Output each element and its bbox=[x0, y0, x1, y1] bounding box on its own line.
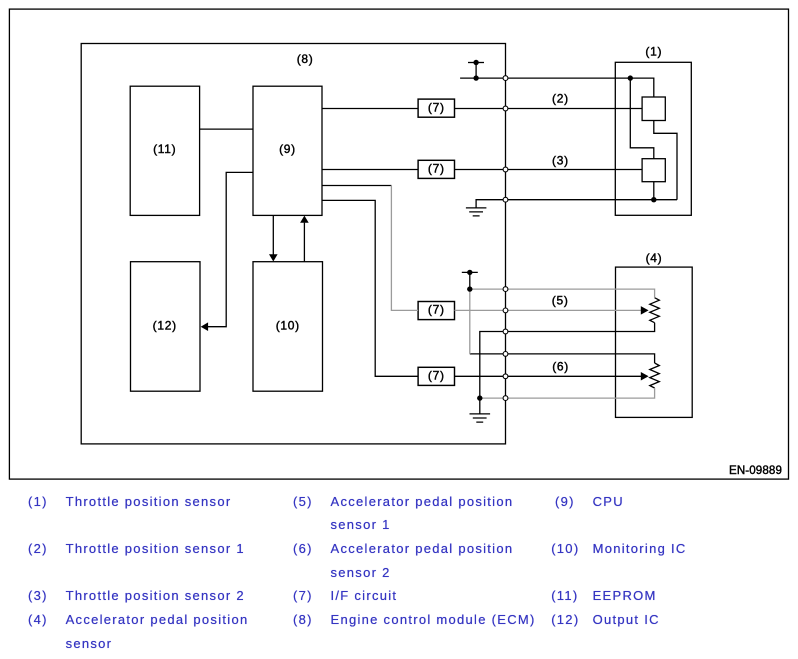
junction dot power lower lower bbox=[467, 286, 472, 291]
svg-text:(11): (11) bbox=[153, 142, 176, 156]
power tap stem bbox=[475, 63, 477, 79]
gray wire (5) from connector toward pot 1 wiper bbox=[506, 309, 642, 311]
legend row 3 column 2 bbox=[293, 588, 313, 604]
ground symbol lower bars bbox=[470, 414, 491, 422]
connector pin circle wire power bbox=[503, 76, 508, 81]
connector pin circle pot 1 supply bbox=[503, 287, 508, 292]
svg-text:(9): (9) bbox=[279, 142, 296, 156]
wire (9) to (12) with arrow bbox=[207, 172, 253, 326]
svg-text:(8): (8) bbox=[297, 52, 314, 66]
legend row 4 column 2 bbox=[293, 612, 313, 628]
legend row 1 column 2 bbox=[293, 494, 313, 510]
wire connector to pot 2 top bbox=[506, 354, 655, 363]
I/F circuit box (7) a bbox=[418, 99, 454, 117]
gray ground wire pot 2 bottom bbox=[506, 388, 655, 398]
sensor (1) wire from upper square to common bbox=[654, 121, 677, 200]
arrowhead into (12) bbox=[201, 322, 208, 331]
connector pin circle wire (5) bbox=[503, 308, 508, 313]
power tap lower stem bbox=[469, 272, 471, 289]
ground symbol top bars bbox=[466, 208, 487, 216]
connector pin circle pot 2 supply bbox=[503, 352, 508, 357]
box (11) EEPROM bbox=[130, 86, 199, 215]
junction dot sensor (1) supply bbox=[628, 75, 633, 80]
pot 1 bottom return wire bbox=[506, 323, 655, 332]
I/F circuit box (7) d bbox=[418, 367, 454, 385]
wire (9) down to (10) bbox=[272, 215, 274, 254]
wire (10) up to (9) bbox=[303, 223, 305, 262]
gray wire (5) elbow down to I/F c bbox=[391, 186, 418, 311]
junction dot power top lower bbox=[473, 75, 478, 80]
legend row 2 column 2 bbox=[293, 541, 313, 557]
wire (2) from I/F to connector bbox=[455, 108, 506, 110]
connector pin circle wire (2) bbox=[503, 106, 508, 111]
gray vertical supply link bbox=[469, 289, 471, 354]
legend row 3 column 1 bbox=[28, 588, 48, 604]
svg-text:(6): (6) bbox=[552, 360, 569, 374]
power tap symbol lower: crossbar bbox=[462, 271, 478, 273]
svg-text:(5): (5) bbox=[552, 294, 569, 308]
svg-text:(12): (12) bbox=[153, 319, 177, 333]
legend row 2 column 1 bbox=[28, 541, 48, 557]
junction dot power top upper bbox=[473, 60, 478, 65]
svg-text:(3): (3) bbox=[552, 153, 569, 167]
power tap symbol top: crossbar bbox=[468, 62, 484, 64]
sensor ground wire from connector to sensor (1) bbox=[506, 199, 678, 201]
gray wire (5) from I/F c to connector bbox=[455, 309, 506, 311]
power wire to connector bbox=[460, 77, 505, 79]
outer border frame bbox=[9, 9, 788, 479]
arrowhead into (9) bbox=[300, 216, 309, 223]
connector pin circle pot 1 return bbox=[503, 329, 508, 334]
wire (2) from CPU to I/F bbox=[322, 108, 418, 110]
legend row 1 column 1 bbox=[28, 494, 48, 510]
box (10) Monitoring IC bbox=[253, 262, 323, 392]
connector pin circle wire (6) bbox=[503, 374, 508, 379]
junction dot power lower upper bbox=[467, 270, 472, 275]
ECM module box (8) bbox=[81, 44, 505, 444]
junction dot ground lower bbox=[477, 395, 482, 400]
legend row 3 column 3 bbox=[551, 588, 578, 604]
box (12) Output IC bbox=[131, 262, 201, 392]
connector pin circle pot 2 return bbox=[503, 396, 508, 401]
wire (2) from connector to sensor square bbox=[506, 108, 643, 110]
legend row 4 column 1 bbox=[28, 612, 48, 628]
wire (6) from I/F d to connector bbox=[455, 375, 506, 377]
svg-text:(7): (7) bbox=[428, 303, 445, 317]
pot 1 resistive element zigzag bbox=[650, 298, 660, 323]
arrowhead wire (5) wiper bbox=[641, 306, 649, 315]
legend row 1 column 3 bbox=[555, 494, 575, 510]
I/F circuit box (7) b bbox=[418, 160, 454, 178]
connector pin circle ground top bbox=[503, 197, 508, 202]
box (4) Accelerator pedal position sensor bbox=[616, 267, 693, 417]
ground wire stub top bbox=[476, 200, 505, 208]
supply wire from connector into sensor (1) bbox=[506, 78, 654, 97]
legend row 4 column 3 bbox=[551, 612, 579, 628]
svg-text:(7): (7) bbox=[428, 369, 445, 383]
junction dot sensor (1) common bbox=[651, 197, 656, 202]
arrowhead into (10) bbox=[269, 254, 278, 261]
contact square upper inside sensor (1) bbox=[642, 97, 665, 121]
svg-text:(7): (7) bbox=[428, 162, 445, 176]
svg-text:(2): (2) bbox=[552, 92, 569, 106]
box (1) Throttle position sensor bbox=[615, 62, 691, 215]
wire (5) black stub from CPU bbox=[322, 185, 391, 187]
legend row 2 column 3 bbox=[551, 541, 579, 557]
wire (11) to (9) bbox=[200, 128, 253, 130]
gray supply wire connector to pot 1 top bbox=[506, 289, 655, 298]
connector pin circle wire (3) bbox=[503, 167, 508, 172]
sensor (1) wire from lower square to common dot bbox=[653, 182, 655, 200]
gray ground stub to ground dot bbox=[480, 397, 506, 399]
wire (6) from CPU elbow down to I/F d bbox=[322, 200, 418, 376]
arrowhead wire (6) wiper bbox=[641, 372, 649, 381]
I/F circuit box (7) c bbox=[418, 302, 454, 320]
svg-text:(10): (10) bbox=[276, 319, 300, 333]
wire (3) from I/F to connector bbox=[455, 169, 506, 171]
contact square lower inside sensor (1) bbox=[642, 159, 665, 182]
svg-text:(1): (1) bbox=[645, 45, 662, 59]
wire connector to ground chain bbox=[480, 332, 506, 414]
wire (6) from connector toward pot 2 wiper bbox=[506, 375, 642, 377]
svg-text:(4): (4) bbox=[646, 251, 663, 265]
wire power to pot 2 supply bbox=[470, 353, 506, 355]
wire (3) from connector to sensor square bbox=[506, 169, 643, 171]
svg-text:EN-09889: EN-09889 bbox=[729, 464, 782, 477]
box (9) CPU bbox=[253, 86, 322, 215]
wire (3) from CPU to I/F bbox=[322, 169, 418, 171]
gray supply wire power dot to connector bbox=[470, 288, 506, 290]
pot 2 resistive element zigzag bbox=[650, 363, 660, 388]
sensor (1) internal wire from supply dot to lower square bbox=[630, 78, 654, 159]
svg-text:(7): (7) bbox=[428, 100, 445, 114]
